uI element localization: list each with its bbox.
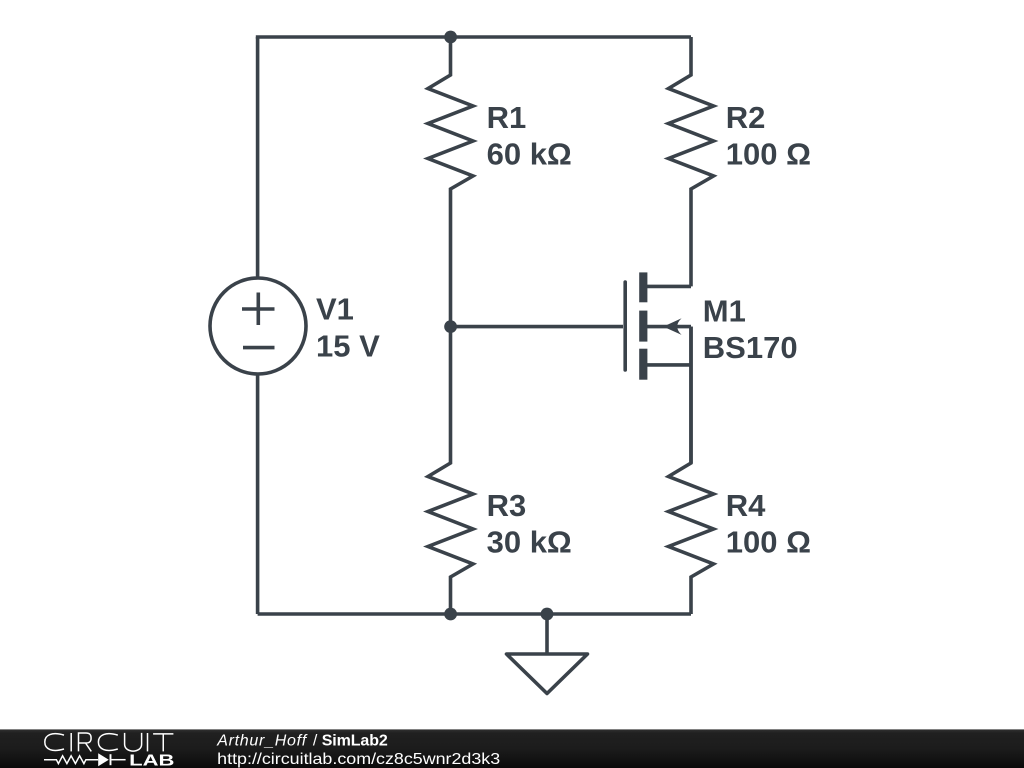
- wire bottom rail: [258, 612, 691, 616]
- svg-text:http://circuitlab.com/cz8c5wnr: http://circuitlab.com/cz8c5wnr2d3k3: [217, 751, 500, 768]
- svg-text:R4: R4: [726, 488, 766, 523]
- resistor R3: [428, 327, 473, 614]
- logo resistor-diode glyph: [44, 754, 126, 765]
- svg-text:V1: V1: [316, 292, 354, 327]
- wire left rail upper: [256, 37, 260, 278]
- logo CIRCUIT lettering: [45, 733, 174, 752]
- ground triangle: [507, 654, 588, 694]
- wire top rail: [258, 35, 691, 37]
- svg-text:60 kΩ: 60 kΩ: [487, 137, 572, 172]
- svg-text:BS170: BS170: [703, 330, 798, 365]
- resistor R4: [669, 327, 714, 614]
- transistor M1 channel bar top: [639, 272, 647, 302]
- transistor M1 channel bar middle: [639, 311, 647, 342]
- svg-text:Arthur_Hoff / SimLab2: Arthur_Hoff / SimLab2: [216, 732, 388, 749]
- svg-text:LAB: LAB: [129, 752, 174, 768]
- transistor M1 drain tap: [647, 285, 691, 289]
- transistor M1 gate electrode: [623, 282, 627, 370]
- V1 minus sign: [243, 346, 275, 350]
- svg-text:15 V: 15 V: [316, 328, 380, 363]
- node junction dot bottom R3: [444, 608, 457, 621]
- svg-text:100 Ω: 100 Ω: [726, 137, 811, 172]
- wire M1 body-source to R4: [689, 327, 693, 463]
- logo diode triangle: [98, 753, 109, 766]
- node junction dot top: [444, 31, 457, 44]
- wire gate of M1: [451, 325, 624, 329]
- node junction dot ground: [541, 608, 554, 621]
- svg-text:R1: R1: [487, 100, 527, 135]
- svg-text:30 kΩ: 30 kΩ: [487, 525, 572, 560]
- node junction dot gate: [444, 320, 457, 333]
- ground stem: [545, 614, 549, 654]
- svg-text:100 Ω: 100 Ω: [726, 525, 811, 560]
- transistor M1 body arrow: [663, 318, 681, 335]
- transistor M1 channel bar bottom: [639, 349, 647, 380]
- resistor R2: [669, 37, 714, 286]
- transistor M1 source tap: [647, 363, 691, 367]
- svg-text:R2: R2: [726, 100, 766, 135]
- V1 plus sign: [242, 293, 275, 326]
- resistor R1: [428, 37, 473, 327]
- transistor M1 body tap: [647, 325, 691, 329]
- svg-text:M1: M1: [703, 294, 746, 329]
- voltage source V1 circle: [210, 278, 306, 374]
- wire left rail lower: [256, 374, 260, 614]
- svg-text:R3: R3: [487, 488, 527, 523]
